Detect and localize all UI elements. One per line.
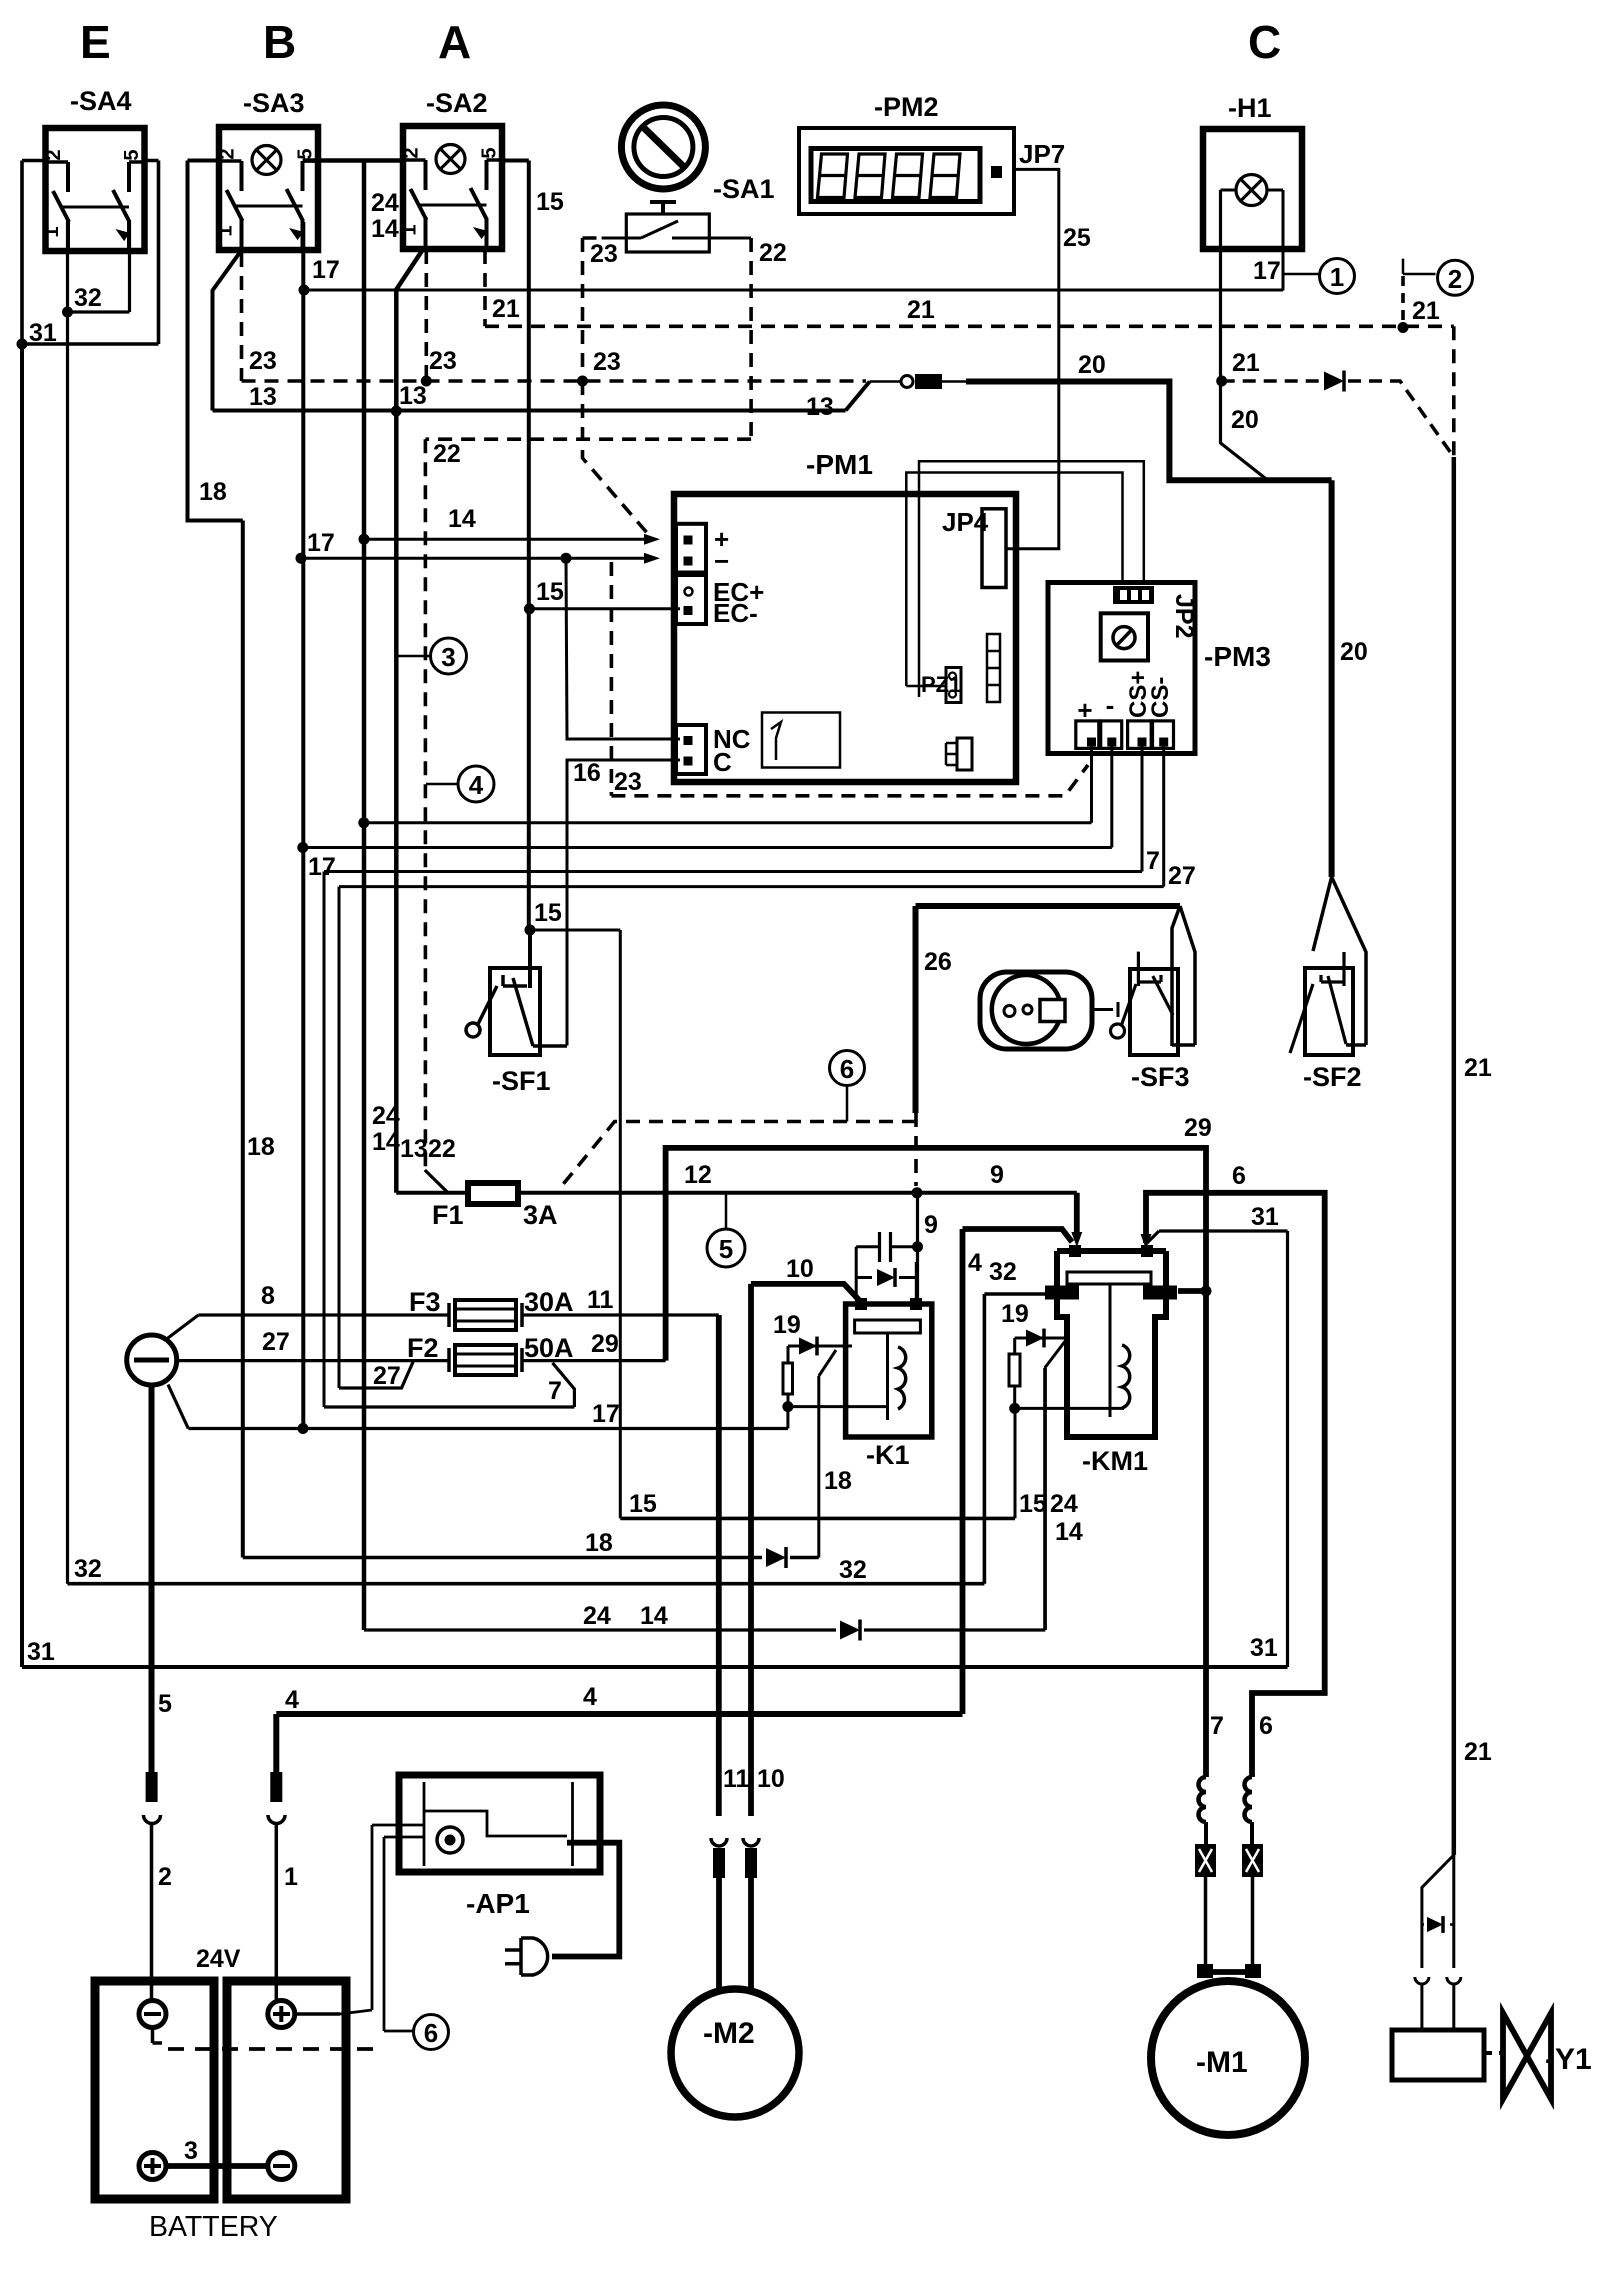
PM1 terminal block 1 bbox=[676, 524, 706, 573]
svg-text:22: 22 bbox=[759, 239, 787, 267]
svg-text:31: 31 bbox=[29, 319, 57, 347]
wire 8 label bbox=[261, 1282, 275, 1310]
wire 20 vertical to SF2 bbox=[1329, 480, 1335, 877]
Y1 connector arcs bbox=[1415, 1977, 1461, 2030]
PM1 dip strip bbox=[987, 634, 1000, 702]
svg-text:C: C bbox=[713, 747, 732, 777]
svg-text:17: 17 bbox=[592, 1400, 620, 1428]
wire 14 24 loop left of SA2 bbox=[303, 161, 403, 1631]
svg-text:6: 6 bbox=[1232, 1162, 1246, 1190]
controller PM3 box bbox=[1048, 583, 1271, 754]
AP1 dc connector bbox=[437, 1827, 463, 1853]
svg-text:−: − bbox=[714, 546, 729, 576]
svg-text:-SA1: -SA1 bbox=[713, 174, 775, 204]
dashed wire 23 to PM1 plus bbox=[583, 381, 649, 534]
junction dot 15a bbox=[524, 603, 535, 614]
wire 27 label b bbox=[262, 1328, 290, 1356]
svg-text:2: 2 bbox=[217, 148, 239, 159]
wire 7 jog from F2 bbox=[324, 1363, 574, 1407]
switch SF2 bbox=[1290, 952, 1362, 1092]
PM1 aux connector bbox=[946, 738, 972, 770]
wire 18 from SA3 pin2 bbox=[188, 161, 243, 1558]
svg-text:32: 32 bbox=[74, 1555, 102, 1583]
wire 13 from SA2 pin1 bbox=[396, 250, 422, 1193]
wire 5 from shunt bbox=[149, 1385, 155, 1772]
junction dot 21b bbox=[1216, 376, 1227, 387]
controller PM1 box bbox=[674, 449, 1016, 782]
wire 31 label bbox=[29, 319, 57, 347]
wire 21 vertical right solid bbox=[1452, 457, 1457, 1855]
KM1 coil arcs bbox=[1122, 1345, 1130, 1408]
wire 17 row to PM3 minus bbox=[303, 746, 1112, 848]
wire 6 label a bbox=[1232, 1162, 1246, 1190]
K1 resistor bbox=[783, 1346, 793, 1407]
K1 coil arcs bbox=[898, 1347, 906, 1409]
seven segment digits bbox=[811, 149, 980, 202]
dashed wire 21 branch bbox=[1222, 381, 1454, 457]
dashed wire 21 down right bbox=[1452, 326, 1456, 457]
shunt symbol bbox=[127, 1335, 177, 1385]
svg-text:14: 14 bbox=[1055, 1518, 1083, 1546]
switch SF2 wires bbox=[1313, 877, 1366, 1045]
svg-text:4: 4 bbox=[469, 770, 484, 800]
svg-text:C: C bbox=[1248, 16, 1281, 68]
wire 4 vertical bbox=[960, 1229, 966, 1714]
svg-text:5: 5 bbox=[295, 148, 317, 159]
node E bbox=[80, 16, 111, 68]
svg-text:11: 11 bbox=[723, 1765, 750, 1793]
AP1 inner structure bbox=[424, 1782, 573, 1866]
wire 27 label c bbox=[373, 1362, 401, 1390]
junction dot 23a bbox=[421, 376, 432, 387]
svg-text:3: 3 bbox=[441, 642, 455, 672]
svg-text:23: 23 bbox=[249, 347, 277, 375]
battery plus stub bbox=[295, 2012, 340, 2016]
fuse F2 bbox=[407, 1333, 574, 1375]
svg-text:6: 6 bbox=[424, 2018, 438, 2048]
svg-text:5: 5 bbox=[121, 149, 143, 160]
wire 24 14 labels row bbox=[583, 1602, 668, 1630]
dashed wire 21 from SA2 pin4 bbox=[483, 250, 487, 326]
svg-text:13: 13 bbox=[400, 1135, 428, 1163]
junction dot 19b bbox=[1009, 1403, 1020, 1414]
wire 29 label b bbox=[1184, 1114, 1212, 1142]
svg-text:15: 15 bbox=[536, 188, 564, 216]
battery terminal minus bottom bbox=[268, 2153, 295, 2180]
wire 22 label SA1 bbox=[759, 239, 787, 267]
dashed wire 22 row bbox=[425, 439, 751, 1170]
wire 17 from shunt bbox=[168, 1385, 788, 1429]
wire 7 PM3 CSplus bbox=[324, 746, 1142, 1407]
dashed wire 21 stub to callout 2 bbox=[1401, 276, 1405, 328]
battery terminal plus top bbox=[268, 2001, 295, 2028]
no-entry symbol bbox=[621, 105, 705, 189]
wire 20 label c bbox=[1340, 638, 1368, 666]
wire 24 14 bottom row bbox=[364, 1368, 1045, 1630]
svg-text:17: 17 bbox=[307, 529, 335, 557]
svg-text:18: 18 bbox=[247, 1133, 275, 1161]
svg-text:A: A bbox=[438, 16, 471, 68]
wire 13 row bbox=[213, 382, 870, 411]
svg-text:E: E bbox=[80, 16, 111, 68]
callout 6 battery bbox=[414, 2015, 449, 2050]
junction dot 21a bbox=[1398, 322, 1409, 333]
wire 21 label b bbox=[1232, 349, 1260, 377]
PM1 pin plus bbox=[684, 524, 730, 554]
svg-text:17: 17 bbox=[312, 256, 340, 284]
PM3 terminal CSminus bbox=[1147, 677, 1174, 749]
wire 19 label b bbox=[1001, 1300, 1029, 1328]
svg-text:3A: 3A bbox=[523, 1200, 558, 1230]
junction dot 17c bbox=[561, 553, 572, 564]
svg-text:-KM1: -KM1 bbox=[1082, 1446, 1148, 1476]
svg-text:19: 19 bbox=[1001, 1300, 1029, 1328]
svg-text:6: 6 bbox=[1259, 1712, 1273, 1740]
svg-text:17: 17 bbox=[1253, 257, 1281, 285]
wire 7 6 labels bbox=[1210, 1712, 1273, 1740]
wire 31 loop around SA4 bbox=[22, 161, 159, 345]
svg-text:21: 21 bbox=[907, 296, 935, 324]
svg-text:21: 21 bbox=[1232, 349, 1260, 377]
decimal indicator bbox=[991, 166, 1002, 178]
dashed wire 23 under SA3 bbox=[240, 253, 244, 381]
wire 24 14 labels right bbox=[1050, 1490, 1083, 1546]
inductor M1 b bbox=[1245, 1767, 1252, 1844]
wire stubs to M2 bbox=[719, 1878, 751, 1990]
wire 15 row b bbox=[530, 930, 620, 1518]
svg-text:11: 11 bbox=[587, 1286, 614, 1314]
wire motor to SF3 lever bbox=[1092, 1002, 1118, 1017]
dashed wire 23 under SA2 bbox=[424, 250, 428, 381]
svg-text:15: 15 bbox=[1019, 1490, 1047, 1518]
svg-text:-AP1: -AP1 bbox=[466, 1888, 530, 1919]
svg-text:1: 1 bbox=[399, 224, 421, 235]
svg-text:50A: 50A bbox=[524, 1333, 574, 1363]
Y1 valve link bbox=[1484, 2051, 1502, 2055]
callout 2 circle bbox=[1403, 259, 1473, 296]
dashed wire 6 bbox=[560, 1113, 916, 1188]
wire 12 label bbox=[684, 1161, 712, 1189]
wire 23 labels row bbox=[249, 347, 457, 375]
svg-text:21: 21 bbox=[1464, 1738, 1492, 1766]
wire 22 label row bbox=[433, 440, 461, 468]
svg-text:BATTERY: BATTERY bbox=[149, 2211, 278, 2243]
fuse link on wire 20 bbox=[870, 374, 966, 389]
wire 11 after F3 bbox=[522, 1313, 719, 1316]
wire to KM1 right tab bbox=[1178, 1288, 1206, 1294]
wire 27 from shunt bbox=[177, 1359, 449, 1362]
svg-text:24: 24 bbox=[371, 189, 399, 217]
battery left box bbox=[95, 1981, 214, 2199]
wire 17 tap to NC bbox=[566, 558, 680, 739]
wire 22 13 labels bbox=[372, 1102, 456, 1163]
junction dot 19a bbox=[782, 1401, 793, 1412]
wires to M1 bbox=[1206, 1877, 1253, 1966]
svg-text:-M2: -M2 bbox=[703, 2017, 755, 2050]
svg-text:26: 26 bbox=[924, 948, 952, 976]
M1 pin squares bbox=[1197, 1964, 1261, 1978]
svg-text:22: 22 bbox=[428, 1135, 456, 1163]
svg-text:1: 1 bbox=[41, 226, 63, 237]
svg-text:12: 12 bbox=[684, 1161, 712, 1189]
relay K1 box bbox=[846, 1304, 932, 1470]
wire 23 label c bbox=[593, 348, 621, 376]
wire 5 connector bbox=[144, 1772, 161, 2001]
junction dot 29 bbox=[1201, 1286, 1212, 1297]
svg-text:-M1: -M1 bbox=[1196, 2046, 1248, 2079]
svg-text:10: 10 bbox=[786, 1255, 814, 1283]
wire 15 vertical from SA2 pin5 bbox=[499, 161, 529, 931]
K1 pin squares bbox=[855, 1298, 922, 1310]
PM1 terminal block 2 bbox=[676, 575, 706, 624]
svg-text:29: 29 bbox=[591, 1330, 619, 1358]
wire 31 labels row bbox=[27, 1634, 1278, 1666]
wire 9 down to KM1 bbox=[1071, 1193, 1082, 1247]
wire 15 label b bbox=[536, 578, 564, 606]
svg-text:24V: 24V bbox=[196, 1945, 241, 1973]
wire 29 after F2 bbox=[522, 1359, 666, 1362]
svg-text:-PM2: -PM2 bbox=[874, 92, 939, 122]
svg-text:-SA3: -SA3 bbox=[243, 88, 305, 118]
solenoid Y1 box bbox=[1392, 2030, 1484, 2080]
wire 23 label bottom bbox=[614, 768, 642, 796]
AP1 dc wires bbox=[372, 1825, 424, 1837]
callout 3 circle bbox=[398, 638, 467, 674]
wire 20 thick run bbox=[966, 382, 1332, 481]
svg-text:JP2: JP2 bbox=[1170, 594, 1198, 638]
KM1 armature bbox=[1067, 1272, 1151, 1417]
svg-text:8: 8 bbox=[261, 1282, 275, 1310]
svg-text:-PM1: -PM1 bbox=[806, 449, 873, 480]
svg-text:15: 15 bbox=[536, 578, 564, 606]
svg-text:14: 14 bbox=[371, 215, 399, 243]
svg-text:18: 18 bbox=[199, 478, 227, 506]
wire 15 label c bbox=[534, 899, 562, 927]
wire 17 to K1 bbox=[786, 1407, 789, 1429]
svg-text:-K1: -K1 bbox=[866, 1440, 910, 1470]
battery minus stub bbox=[153, 2027, 163, 2043]
svg-text:-SF1: -SF1 bbox=[492, 1066, 551, 1096]
wire 21 label a bbox=[1412, 297, 1440, 325]
wire JP2 link b bbox=[919, 461, 1144, 697]
wire 21 label c bbox=[1464, 1054, 1492, 1082]
motor M2 bbox=[671, 1989, 799, 2117]
svg-text:-SF2: -SF2 bbox=[1303, 1062, 1362, 1092]
battery terminal plus bottom bbox=[139, 2153, 166, 2180]
wire 26 label bbox=[924, 948, 952, 976]
svg-text:2: 2 bbox=[158, 1863, 172, 1891]
svg-text:4: 4 bbox=[583, 1683, 597, 1711]
wire 13 from SA3 pin1 bbox=[213, 250, 242, 411]
wire 27 label a bbox=[1168, 862, 1196, 890]
wire 2 label bbox=[158, 1863, 172, 1891]
svg-text:27: 27 bbox=[262, 1328, 290, 1356]
svg-text:23: 23 bbox=[590, 240, 618, 268]
wire 17 label e bbox=[592, 1400, 620, 1428]
wire 32 to KM1 tab bbox=[984, 1294, 1045, 1584]
svg-text:31: 31 bbox=[27, 1638, 55, 1666]
PM1 pin C bbox=[684, 747, 733, 777]
svg-text:+: + bbox=[1077, 695, 1092, 725]
wire PM3 plus bbox=[1090, 746, 1093, 823]
svg-text:30A: 30A bbox=[524, 1287, 574, 1317]
svg-text:19: 19 bbox=[773, 1311, 801, 1339]
switch SA2 bbox=[399, 88, 503, 250]
junction dot 17e bbox=[298, 1423, 309, 1434]
svg-text:10: 10 bbox=[757, 1765, 785, 1793]
wire 15 label bbox=[536, 188, 564, 216]
wire 27 PM3 CSminus bbox=[339, 746, 1164, 1388]
node B bbox=[263, 16, 296, 68]
wire 15 to KM1 bbox=[1014, 1408, 1017, 1518]
wire 23 label SA1 bbox=[590, 240, 618, 268]
wire 4 labels row bbox=[285, 1683, 597, 1714]
wire 4 bottom row bbox=[276, 1711, 962, 1717]
svg-text:-H1: -H1 bbox=[1228, 93, 1272, 123]
wire PZ1 stub bbox=[906, 685, 946, 688]
inductor M1 a bbox=[1199, 1767, 1207, 1844]
svg-text:29: 29 bbox=[1184, 1114, 1212, 1142]
svg-text:CS-: CS- bbox=[1147, 677, 1174, 718]
svg-text:-SA4: -SA4 bbox=[70, 86, 132, 116]
svg-text:-SF3: -SF3 bbox=[1131, 1062, 1190, 1092]
svg-text:21: 21 bbox=[1464, 1054, 1492, 1082]
wire 14 row to PM1 plus bbox=[364, 534, 660, 545]
pump motor symbol bbox=[980, 972, 1092, 1049]
fuse F3 bbox=[409, 1287, 574, 1330]
wire 14 label row bbox=[448, 505, 476, 533]
wire 15 labels row bbox=[629, 1490, 1047, 1518]
wire 9 label a bbox=[990, 1161, 1004, 1189]
KM1 pin squares bbox=[1069, 1245, 1153, 1257]
wire 5 label bbox=[158, 1690, 172, 1718]
PM3 terminal CSplus bbox=[1125, 671, 1152, 749]
svg-text:9: 9 bbox=[990, 1161, 1004, 1189]
PM3 trimmer bbox=[1101, 613, 1148, 660]
svg-text:32: 32 bbox=[989, 1258, 1017, 1286]
wire 25 label bbox=[1063, 224, 1091, 252]
wire 20 H1 left leg bbox=[1221, 190, 1268, 480]
diode on wire 24 14 bbox=[840, 1620, 860, 1641]
wire 21 label d bbox=[1464, 1738, 1492, 1766]
wire 17 vertical from SA3 pin5 bbox=[303, 161, 318, 1429]
wire 29 label a bbox=[591, 1330, 619, 1358]
svg-text:7: 7 bbox=[1146, 847, 1160, 875]
svg-text:16: 16 bbox=[573, 759, 601, 787]
wire 14 row to PM3 bbox=[364, 821, 1092, 824]
mains plug bbox=[505, 1843, 619, 1975]
svg-text:1: 1 bbox=[215, 225, 237, 236]
svg-text:5: 5 bbox=[158, 1690, 172, 1718]
svg-text:1: 1 bbox=[1330, 262, 1344, 292]
K1 coil bottom row bbox=[788, 1405, 888, 1408]
svg-text:32: 32 bbox=[839, 1556, 867, 1584]
svg-text:13: 13 bbox=[399, 382, 427, 410]
diode at Y1 bbox=[1422, 1916, 1454, 1933]
svg-text:13: 13 bbox=[806, 393, 834, 421]
junction dot 15b bbox=[525, 925, 536, 936]
wire 7 label a bbox=[1146, 847, 1160, 875]
K1 snubber loop bbox=[856, 1232, 917, 1298]
KM1 side tabs bbox=[1045, 1286, 1177, 1300]
wire 4 to KM1 bbox=[963, 1229, 1073, 1242]
dashed wire 21 row bbox=[485, 324, 1454, 328]
wire 15 tap to ECminus bbox=[529, 607, 680, 610]
callout 4 circle bbox=[426, 766, 494, 802]
wire 17 H1 right leg bbox=[1282, 190, 1285, 291]
wire 9 vertical to K1 bbox=[916, 1193, 919, 1300]
dashed wire 22 SA1 right bbox=[749, 238, 753, 439]
svg-text:23: 23 bbox=[614, 768, 642, 796]
dashed wire to callout 6 bbox=[168, 2047, 384, 2051]
svg-text:27: 27 bbox=[373, 1362, 401, 1390]
dashed wire 23 row bbox=[242, 379, 867, 383]
svg-text:18: 18 bbox=[824, 1467, 852, 1495]
svg-text:31: 31 bbox=[1250, 1634, 1278, 1662]
svg-text:9: 9 bbox=[924, 1211, 938, 1239]
svg-text:5: 5 bbox=[719, 1234, 733, 1264]
K1 armature bbox=[855, 1320, 921, 1420]
wire 32 SA4 pins bbox=[68, 221, 130, 1584]
K1 coil circuit bbox=[788, 1337, 852, 1558]
svg-text:20: 20 bbox=[1340, 638, 1368, 666]
svg-text:-PM3: -PM3 bbox=[1204, 641, 1271, 672]
AP1 wire to callout 6 bbox=[384, 1837, 413, 2031]
svg-text:-Y1: -Y1 bbox=[1545, 2043, 1592, 2076]
wire 7 label b bbox=[548, 1377, 562, 1405]
wire 4 label a bbox=[968, 1249, 982, 1277]
junction dot 31 bbox=[17, 339, 28, 350]
svg-text:24: 24 bbox=[372, 1102, 400, 1130]
wire 17 label c bbox=[307, 529, 335, 557]
connector PZ1 bbox=[921, 668, 961, 703]
svg-text:6: 6 bbox=[840, 1054, 854, 1084]
wire 31 from KM1 bbox=[1147, 1231, 1288, 1667]
switch SA1 bbox=[602, 174, 775, 252]
wire 17 label d bbox=[308, 853, 336, 881]
crimp connector M1 a bbox=[1195, 1844, 1216, 1877]
PM3 terminal minus bbox=[1101, 690, 1122, 748]
wire 24 14 labels left of SA2 bbox=[371, 189, 399, 243]
wire 10 vertical bbox=[748, 1284, 754, 1816]
wire 21 to Y1 split bbox=[1422, 1855, 1454, 1968]
node C bbox=[1248, 16, 1281, 68]
wire 27 jog to F2 bbox=[339, 1361, 414, 1388]
svg-text:1: 1 bbox=[284, 1863, 298, 1891]
contactor KM1 outline bbox=[1057, 1251, 1166, 1476]
svg-text:13: 13 bbox=[249, 383, 277, 411]
lamp H1 bbox=[1203, 93, 1302, 249]
svg-text:32: 32 bbox=[74, 284, 102, 312]
wire 17 labels bbox=[312, 256, 1281, 285]
AP1 wire to battery plus bbox=[340, 1825, 372, 2014]
wire 9 label b bbox=[924, 1211, 938, 1239]
junction dot 13 bbox=[391, 406, 402, 417]
switch SF3 bbox=[1111, 952, 1190, 1092]
svg-text:20: 20 bbox=[1078, 351, 1106, 379]
callout 5 circle bbox=[707, 1193, 745, 1267]
junction dot 17a bbox=[299, 285, 310, 296]
display PM2 box bbox=[799, 92, 1014, 214]
svg-text:3: 3 bbox=[184, 2137, 198, 2165]
wire JP2 link a bbox=[906, 473, 1122, 687]
svg-text:4: 4 bbox=[968, 1249, 982, 1277]
wire 32 label bbox=[74, 284, 102, 312]
svg-text:23: 23 bbox=[593, 348, 621, 376]
svg-text:15: 15 bbox=[534, 899, 562, 927]
wire 7 M1 vertical bbox=[1203, 1291, 1209, 1767]
valve Y1 symbol bbox=[1503, 2013, 1592, 2099]
